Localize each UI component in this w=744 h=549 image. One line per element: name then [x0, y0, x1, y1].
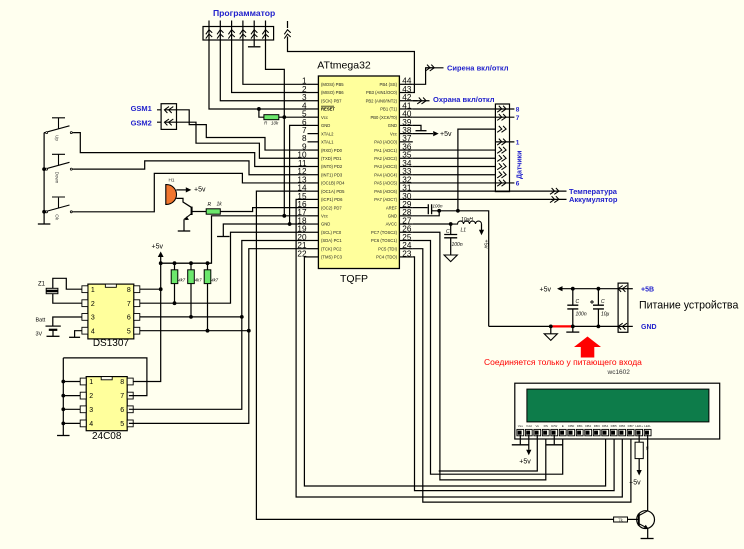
wire H1 minus to Q1 collector [176, 198, 191, 207]
wire U1 pin30 to battery out [413, 198, 551, 200]
wire U1 pin36 to sensor [413, 149, 496, 151]
battery G1 [46, 325, 61, 327]
wire U1 pin15 to LCD DB6 [296, 199, 622, 497]
wire U1 pin32 to sensor [413, 182, 496, 184]
wire Q2 emitter to ground [647, 528, 649, 538]
transistor Q1 [191, 207, 193, 215]
junction node p5 c1 [571, 287, 575, 291]
ground programmer ground [248, 46, 261, 48]
+5v arrow up [158, 252, 164, 258]
Датчики pin arrows [497, 106, 506, 186]
resistor R3 4k7 [188, 270, 195, 284]
wire LED resistor to +5v [638, 459, 640, 470]
svg-text:+5v: +5v [629, 480, 641, 487]
wire DS pin5 row [140, 330, 249, 332]
junction node 24C08 rail [61, 380, 65, 384]
wire 7k to Q2 base [628, 518, 639, 520]
wire U1 pin27 avcc lead [413, 223, 451, 225]
wire crystal to DS pin2 [53, 294, 82, 304]
wire aref gnd to pin28 [413, 211, 439, 216]
resistor R 10k [264, 115, 279, 120]
svg-text:6: 6 [120, 407, 124, 414]
wire +5v rail vertical [129, 257, 161, 382]
svg-text:1: 1 [516, 139, 520, 146]
LCD screen [527, 389, 709, 422]
wire 24C08 left pin lead [63, 381, 80, 383]
wire programmer pin2 to U1 pin2 [232, 40, 308, 93]
wire Q1 emitter to ground [183, 219, 185, 230]
wire Датчики stub [495, 108, 514, 110]
wire 24C08 left pin lead [63, 408, 80, 410]
svg-text:(OC1A) PD5: (OC1A) PD5 [321, 189, 345, 194]
svg-text:PC5 (TDI): PC5 (TDI) [378, 246, 397, 251]
svg-text:+5v: +5v [440, 131, 452, 138]
resistor R 1k [206, 209, 220, 214]
svg-text:100n: 100n [576, 312, 587, 318]
svg-text:GSM1: GSM1 [131, 104, 152, 113]
junction node R4 bottom [206, 329, 210, 333]
resistor R 7k base [614, 517, 628, 522]
+5v arrow power [557, 286, 563, 291]
svg-text:7: 7 [127, 301, 131, 308]
svg-text:8: 8 [516, 107, 520, 114]
svg-text:(MISO) PB6: (MISO) PB6 [321, 90, 344, 95]
wire power +5 rail [563, 288, 619, 290]
wire programmer pin5 ground lead [253, 40, 255, 46]
wire Датчики stub [495, 116, 514, 118]
ground ground pin18 [217, 236, 230, 238]
wire R4 bottom lead [207, 284, 209, 331]
LCD module body [515, 383, 720, 439]
wire R2 top lead [174, 263, 176, 270]
svg-text:(TMS) PC3: (TMS) PC3 [321, 255, 343, 260]
wire DS pin3 to battery [53, 317, 82, 326]
svg-text:DB6: DB6 [619, 424, 625, 428]
ground DS1307 ground [69, 336, 80, 338]
svg-text:1k: 1k [217, 202, 223, 208]
wire arrow7 to U1 pin43 [288, 37, 415, 93]
svg-text:Batt: Batt [36, 318, 46, 324]
red arrow marker [574, 337, 601, 358]
svg-text:(TXD) PD1: (TXD) PD1 [321, 156, 342, 161]
resistor R2 4k7 [171, 270, 178, 284]
svg-text:Охрана вкл/откл: Охрана вкл/откл [433, 95, 495, 104]
svg-text:C: C [576, 299, 580, 305]
wire U1 pin44 to siren arrow [413, 68, 434, 85]
wire U1 pin23 to LCD DB5 [413, 257, 614, 491]
junction node R10k right [282, 115, 286, 119]
wire LCD pin15 lead [638, 435, 640, 442]
wire Датчики stub [495, 182, 514, 184]
svg-text:Vdd: Vdd [526, 424, 532, 428]
IC U2 DS1307 [82, 284, 140, 349]
svg-text:+5v: +5v [152, 244, 164, 251]
junction rail DS pin8 node [159, 287, 163, 291]
svg-text:C: C [601, 299, 605, 305]
svg-text:10μH: 10μH [461, 217, 473, 223]
svg-text:E: E [562, 424, 564, 428]
svg-text:(TCK) PC2: (TCK) PC2 [321, 246, 342, 251]
svg-text:AREF: AREF [386, 205, 398, 210]
wire U1 pin33 to sensor [413, 174, 496, 176]
svg-text:Vo: Vo [535, 424, 539, 428]
junction rail at Ok [42, 210, 46, 214]
svg-text:8: 8 [127, 287, 131, 294]
wire DS pin8 to +5v rail [140, 288, 161, 290]
svg-text:GND: GND [321, 123, 330, 128]
wire R3 bottom lead [190, 284, 192, 317]
svg-text:H1: H1 [169, 178, 175, 183]
wire programmer pin4 to U1 pin4 [209, 40, 308, 109]
svg-text:23: 23 [402, 249, 412, 258]
wire buttons common rail [43, 133, 45, 224]
connector X1 programmer box [203, 27, 274, 41]
svg-text:4: 4 [89, 421, 93, 428]
wire U1 pin41 to sensor8 [413, 108, 496, 110]
GSM pin2 arrow [157, 121, 177, 123]
svg-text:Питание устройства: Питание устройства [639, 300, 738, 312]
svg-text:Аккумулятор: Аккумулятор [569, 195, 618, 204]
svg-text:RESET: RESET [321, 107, 335, 112]
ground battery ground [47, 335, 60, 337]
svg-text:7: 7 [120, 393, 124, 400]
wire U1 pin21 to 24C08 pin5 [129, 249, 308, 424]
capacitor C 100n AREF [428, 204, 431, 214]
junction node 24C08 rail [61, 422, 65, 426]
wire DS pin1 to crystal [53, 278, 82, 289]
svg-text:+5B: +5B [641, 286, 654, 293]
svg-text:(ICP1) PD6: (ICP1) PD6 [321, 197, 343, 202]
wire U1 pin17 Vcc to +5v rail [161, 216, 308, 263]
IC U3 24C08 [80, 377, 133, 442]
svg-text:DB7: DB7 [628, 424, 634, 428]
svg-text:3V: 3V [36, 332, 43, 338]
svg-text:Vss: Vss [518, 424, 524, 428]
svg-text:10μ: 10μ [601, 312, 610, 318]
siren arrow [425, 65, 434, 71]
svg-text:Z1: Z1 [38, 282, 46, 288]
junction node avcc [449, 222, 453, 226]
svg-text:LED-: LED- [644, 424, 651, 428]
wire DS pin6 row [140, 316, 242, 318]
wire aref cap to gnd net [432, 211, 489, 327]
ground buttons ground [38, 223, 51, 225]
ground power ground 2 [566, 331, 579, 333]
svg-text:DB5: DB5 [611, 424, 617, 428]
accumulator arrow [550, 196, 559, 202]
wire power gnd rail [489, 325, 618, 327]
svg-text:AVCC: AVCC [386, 222, 397, 227]
wire LCD pin2 +5v [528, 435, 530, 450]
wire LCD pin16 to Q2 [647, 435, 649, 511]
junction node 24C08 rail [61, 394, 65, 398]
wire 24C08 left pin lead [63, 422, 80, 424]
guard arrow [417, 98, 426, 104]
switch S2 Down [44, 154, 74, 183]
wire GSM2 to U1 pin10 [177, 122, 308, 158]
ground power ground [544, 334, 557, 341]
switch S1 Up [44, 118, 74, 142]
svg-text:DB1: DB1 [577, 424, 583, 428]
connector X1 pins with arrows [206, 21, 269, 41]
ground pin39 ground [416, 130, 427, 132]
svg-text:(INT0) PD2: (INT0) PD2 [321, 164, 343, 169]
wire U1 pin5 stub wire [284, 116, 307, 118]
svg-text:Vcc: Vcc [390, 131, 397, 136]
wire U1 pin14 to backlight base [256, 191, 613, 519]
wire Датчики stub [495, 141, 514, 143]
svg-text:+5v: +5v [482, 240, 488, 249]
transistor Q2 [637, 511, 655, 529]
wire Up to U1 pin11 [74, 133, 308, 167]
svg-text:100n: 100n [452, 242, 463, 248]
svg-text:5: 5 [120, 421, 124, 428]
wire battery to ground [52, 330, 54, 336]
junction node 24C08 rail [61, 407, 65, 411]
wire R1k to U1 pin16 [220, 208, 307, 212]
wire U1 pin40 to sensor7 [413, 116, 496, 118]
wire U1 pin39 gnd lead [413, 125, 421, 130]
wire Ok to U1 pin13 [74, 173, 308, 211]
LCD pins [517, 424, 651, 436]
svg-text:4k7: 4k7 [195, 278, 202, 283]
ground 24C08 ground [57, 435, 70, 437]
junction node gnd vert [456, 209, 460, 213]
inductor L1 10uH [451, 221, 482, 224]
ground Q1 ground [178, 230, 191, 232]
svg-text:7: 7 [516, 115, 520, 122]
wire R3 top lead [190, 263, 192, 270]
svg-text:Датчики: Датчики [517, 151, 524, 179]
wire programmer pin6 to R10k node [266, 40, 285, 216]
IC U1 ATmega32 body [318, 76, 399, 269]
svg-text:8: 8 [120, 379, 124, 386]
wire sensor row3 net [458, 129, 496, 211]
svg-text:(RXD) PD0: (RXD) PD0 [321, 148, 343, 153]
connector Датчики box [495, 104, 509, 192]
svg-text:GND: GND [641, 324, 657, 331]
svg-text:(SCL) PC0: (SCL) PC0 [321, 230, 342, 235]
svg-text:DB2: DB2 [585, 424, 591, 428]
capacitor C 10u power [593, 305, 604, 309]
svg-text:(OC2) PD7: (OC2) PD7 [321, 205, 342, 210]
wire U1 pin6 to pin18 GND [290, 125, 308, 224]
+5v arrow pin38 [433, 131, 439, 136]
svg-text:ATtmega32: ATtmega32 [317, 60, 371, 72]
wire Down to U1 pin12 [74, 161, 308, 175]
svg-text:1: 1 [91, 287, 95, 294]
wire DS pin4 ground lead [75, 331, 82, 337]
junction node U1 pin17 Vcc [282, 214, 286, 218]
wire Q1 base wire [192, 211, 207, 213]
svg-text:RS: RS [544, 424, 548, 428]
svg-text:(MOSI) PB5: (MOSI) PB5 [321, 82, 344, 87]
svg-text:3: 3 [89, 407, 93, 414]
svg-text:PA4 (ADC4): PA4 (ADC4) [374, 172, 397, 177]
svg-text:Up: Up [55, 135, 60, 141]
svg-text:TQFP: TQFP [340, 273, 368, 285]
wire power gnd T lead [572, 326, 574, 331]
red wire segment [553, 325, 572, 327]
junction node p5 c2 [597, 287, 601, 291]
connector power box [618, 283, 628, 332]
wire U1 pin20 to 24C08 pin6 [129, 240, 308, 409]
wire RESET to R10k [259, 109, 264, 117]
svg-text:PA0 (ADC0): PA0 (ADC0) [374, 140, 397, 145]
svg-text:R/W: R/W [551, 424, 557, 428]
capacitor C 100n power [567, 305, 578, 309]
junction rail-resistor node [159, 261, 163, 265]
junction node R2 bottom [173, 301, 177, 305]
svg-text:+5v: +5v [519, 459, 531, 466]
wire LCD pin5 gnd [553, 435, 555, 444]
wire 24C08 pin7 loop [63, 358, 147, 396]
svg-text:GND: GND [388, 123, 397, 128]
svg-text:Vcc: Vcc [321, 214, 328, 219]
svg-text:2: 2 [89, 393, 93, 400]
svg-text:LED+: LED+ [635, 424, 643, 428]
wire H1 plus to +5v [176, 189, 187, 191]
power pin1 arrow [618, 286, 627, 292]
wire U1 pin31 to temperature [413, 190, 551, 192]
wire avcc cap bottom lead [450, 238, 452, 255]
junction node rail R3 [189, 261, 193, 265]
svg-text:5: 5 [127, 328, 131, 335]
wire U1 pin38 +5v lead [413, 133, 433, 135]
junction node R3 bottom [189, 315, 193, 319]
wire resistor top rail [161, 262, 212, 264]
wire LCD pin1 gnd [519, 435, 521, 444]
wire R4 top lead [207, 263, 209, 270]
svg-text:PA7 (ADC7): PA7 (ADC7) [374, 197, 397, 202]
junction node RESET [257, 107, 261, 111]
svg-text:(SCK) PB7: (SCK) PB7 [321, 98, 342, 103]
wire U1 pin29 aref lead [413, 207, 428, 209]
wire power gnd tri lead [550, 326, 552, 333]
resistor R LED [635, 442, 643, 458]
svg-text:PC7 (TOSC2): PC7 (TOSC2) [371, 230, 398, 235]
junction node gnd c2 [597, 325, 601, 329]
svg-text:GND: GND [321, 222, 330, 227]
svg-text:R 10k: R 10k [264, 120, 279, 125]
svg-text:6: 6 [516, 181, 520, 188]
wire U1 pin42 to guard arrow [413, 100, 418, 102]
wire avcc cap top lead [450, 224, 452, 234]
svg-text:DS1307: DS1307 [93, 338, 130, 349]
svg-text:+5v: +5v [540, 286, 552, 293]
svg-text:PB4 (SS): PB4 (SS) [380, 82, 398, 87]
svg-text:4: 4 [91, 328, 95, 335]
svg-text:DB4: DB4 [602, 424, 608, 428]
svg-text:wc1602: wc1602 [607, 369, 631, 376]
connector GSM box [161, 104, 176, 130]
svg-text:PC4 (TDO): PC4 (TDO) [376, 255, 398, 260]
junction rail at Down [42, 167, 46, 171]
svg-text:PC6 (TOSC1): PC6 (TOSC1) [371, 238, 398, 243]
ground Q2 ground [641, 538, 654, 540]
junction node rail R2 [173, 261, 177, 265]
svg-text:Соединяется только у питающего: Соединяется только у питающего входа [484, 357, 642, 367]
svg-text:PB2 (AIN0/INT2): PB2 (AIN0/INT2) [366, 98, 398, 103]
wire LCD pin3 Vo [439, 435, 538, 471]
wire GSM1 to U1 pin9 [177, 110, 308, 150]
temperature arrow [550, 188, 559, 194]
U1 pin stubs, numbers and pin labels [297, 77, 412, 260]
svg-text:Ok: Ok [55, 214, 60, 221]
svg-text:6: 6 [127, 315, 131, 322]
junction node rail R4 [206, 261, 210, 265]
junction node SCL [240, 315, 244, 319]
power pin2 arrow [618, 323, 627, 329]
svg-text:PB3 (AIN1/OC0): PB3 (AIN1/OC0) [366, 90, 398, 95]
wire DS pin7 row to U1 pin19 [140, 232, 308, 303]
wire U1 pin26 to LCD RS [413, 232, 546, 480]
svg-text:C: C [446, 229, 450, 235]
switch S3 Ok [44, 197, 74, 221]
wire U1 pin24 to LCD DB7 [413, 249, 631, 502]
wire 24C08 left pin lead [63, 395, 80, 397]
svg-text:PB0 (XCK/T0): PB0 (XCK/T0) [370, 115, 397, 120]
wire L1 to +5v [481, 224, 483, 230]
svg-text:GSM2: GSM2 [131, 119, 152, 128]
ground LCD pin5 ground [546, 444, 563, 446]
+5v arrow LED [637, 470, 642, 476]
connector pin arrow 7 [287, 21, 289, 28]
junction node GND pin18 [288, 222, 292, 226]
capacitor C 100n AVCC [444, 235, 457, 238]
wire programmer pin3 to U1 pin3 [220, 40, 307, 101]
svg-text:DB3: DB3 [594, 424, 600, 428]
svg-text:4k7: 4k7 [211, 278, 218, 283]
svg-text:1: 1 [89, 379, 93, 386]
wire programmer pin1 to U1 pin1 [243, 40, 308, 84]
junction node gnd c1 [571, 325, 575, 329]
crystal Z1 [46, 288, 58, 293]
svg-text:+5v: +5v [194, 186, 206, 193]
wire pin18 GND to ground [223, 224, 307, 236]
svg-text:Down: Down [55, 172, 60, 184]
svg-text:PB1 (T1): PB1 (T1) [380, 107, 397, 112]
svg-text:XTAL1: XTAL1 [321, 140, 334, 145]
wire U1 pin35 to sensor [413, 157, 496, 159]
wire R2 bottom lead [174, 284, 176, 304]
svg-text:PA2 (ADC2): PA2 (ADC2) [374, 156, 397, 161]
wire 24C08 gnd rail [62, 358, 64, 435]
svg-text:PA5 (ADC5): PA5 (ADC5) [374, 181, 397, 186]
wire U1 pin25 to LCD E [413, 240, 563, 474]
svg-text:4k7: 4k7 [178, 278, 185, 283]
junction node gnd g1 [549, 325, 553, 329]
svg-text:PA1 (ADC1): PA1 (ADC1) [374, 148, 397, 153]
svg-text:(SDA) PC1: (SDA) PC1 [321, 238, 342, 243]
svg-text:XTAL2: XTAL2 [321, 131, 334, 136]
buzzer H1 [166, 185, 177, 205]
svg-text:DB0: DB0 [568, 424, 574, 428]
svg-text:GND: GND [388, 214, 397, 219]
junction node SDA [247, 329, 251, 333]
svg-text:100n: 100n [433, 203, 444, 208]
svg-text:2: 2 [91, 301, 95, 308]
svg-text:L1: L1 [461, 228, 467, 234]
svg-text:Сирена вкл/откл: Сирена вкл/откл [447, 64, 509, 73]
svg-text:(INT1) PD3: (INT1) PD3 [321, 172, 343, 177]
+5v arrow down L1 [479, 230, 484, 236]
svg-text:Программатор: Программатор [213, 8, 275, 18]
ground LCD pin1 ground [512, 444, 529, 446]
ground avcc ground [444, 255, 457, 262]
svg-text:3: 3 [91, 315, 95, 322]
+5v arrow at H1 [186, 187, 192, 192]
